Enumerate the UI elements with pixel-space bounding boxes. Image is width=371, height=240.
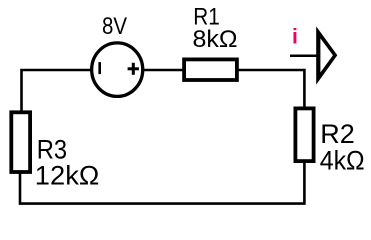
svg-text:8V: 8V (102, 13, 127, 40)
svg-text:12kΩ: 12kΩ (35, 161, 100, 191)
svg-text:R2: R2 (320, 119, 355, 149)
svg-text:i: i (292, 26, 298, 49)
svg-text:4kΩ: 4kΩ (320, 146, 365, 176)
svg-text:8kΩ: 8kΩ (193, 26, 238, 53)
